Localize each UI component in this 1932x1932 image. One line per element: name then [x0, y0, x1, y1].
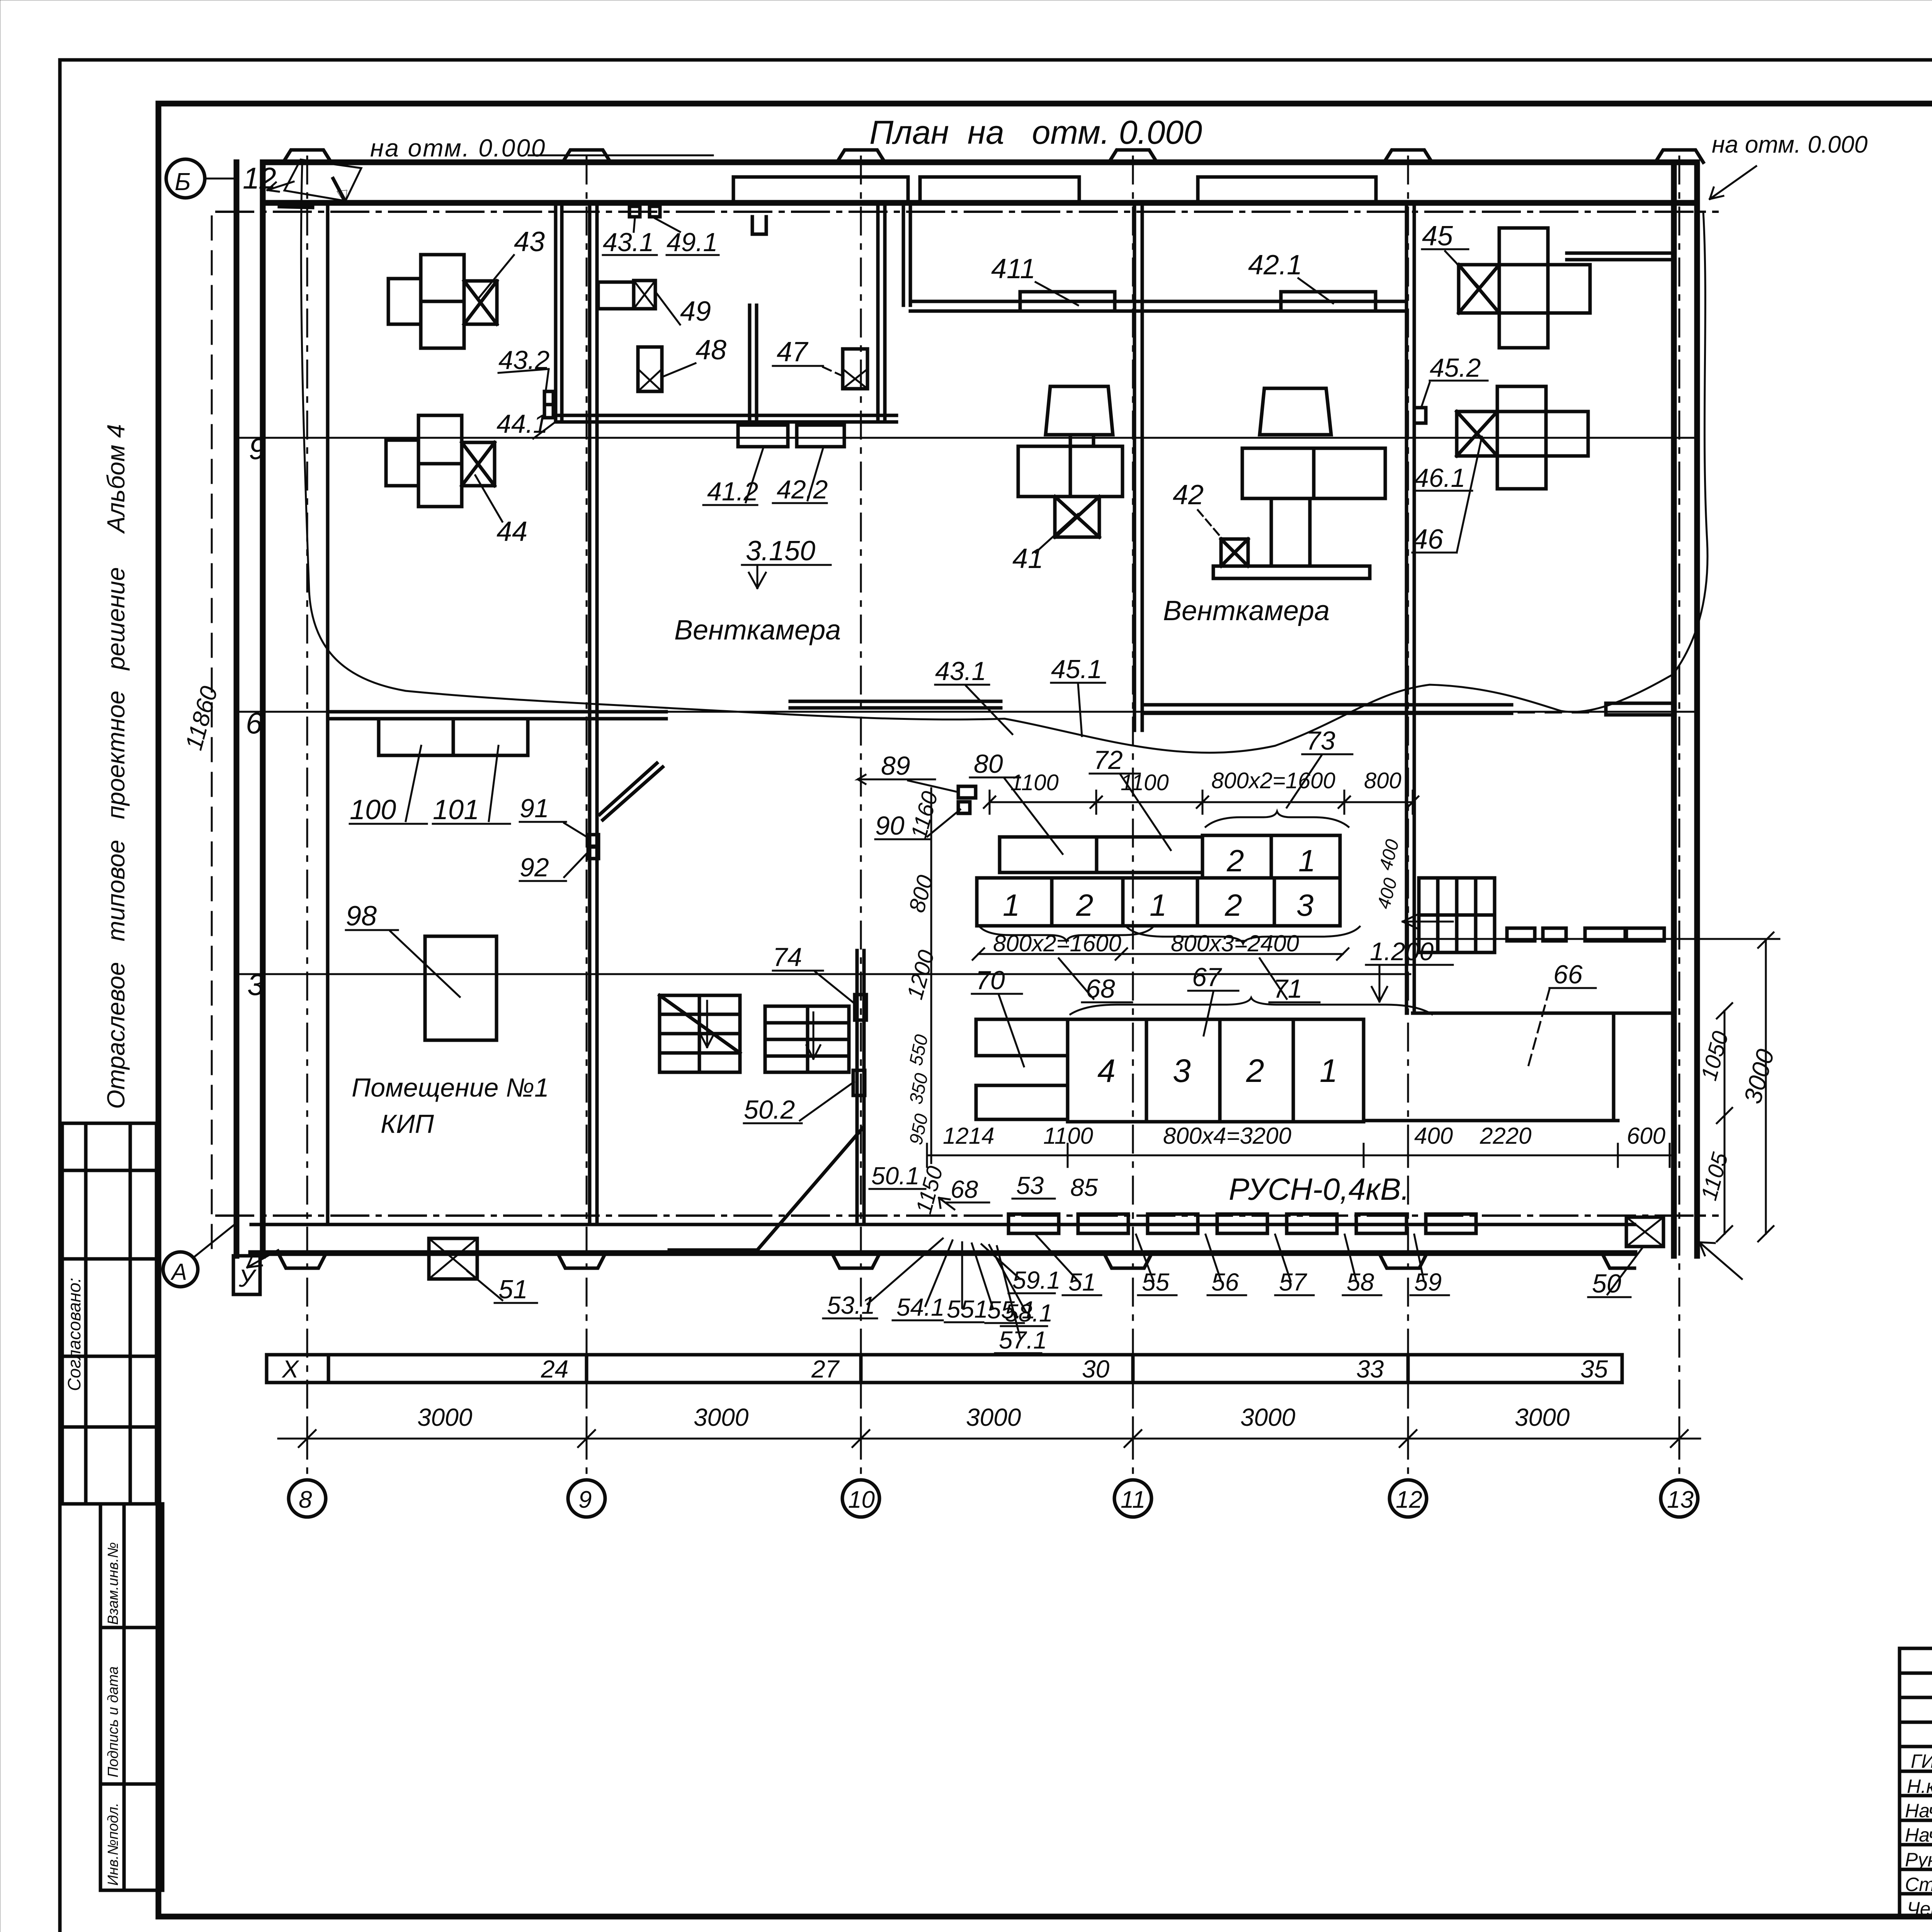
- col-12 wall: [1405, 203, 1408, 1013]
- svg-text:67: 67: [1192, 963, 1222, 992]
- RUSN upper dim line: [990, 801, 1413, 803]
- rail 411-421: [910, 300, 1406, 303]
- svg-text:45.1: 45.1: [1051, 655, 1102, 684]
- machine 43: [388, 255, 497, 348]
- svg-text:42.2: 42.2: [777, 475, 828, 504]
- svg-text:1: 1: [1298, 844, 1316, 878]
- top band window rect 2: [920, 177, 1079, 202]
- svg-text:3: 3: [1173, 1053, 1191, 1089]
- svg-text:48: 48: [696, 335, 726, 366]
- box 100: [379, 719, 453, 755]
- svg-text:3.150: 3.150: [746, 536, 815, 566]
- row6 wall middle segment with pilasters: [790, 700, 1001, 703]
- svg-text:43.1: 43.1: [603, 228, 654, 257]
- svg-text:800х4=3200: 800х4=3200: [1163, 1123, 1291, 1149]
- svg-text:Отраслевое типовое проектн: Отраслевое типовое проектное решение Аль…: [102, 424, 130, 1109]
- svg-text:400: 400: [1414, 1123, 1453, 1149]
- equip 41.2 42.2 below room1: [738, 425, 788, 447]
- col-10 wall lower: [855, 951, 859, 1225]
- svg-text:80: 80: [974, 749, 1003, 779]
- svg-text:Помещение №1: Помещение №1: [352, 1073, 549, 1102]
- transformer 45: [1459, 228, 1590, 348]
- svg-text:41: 41: [1012, 543, 1043, 574]
- svg-text:47: 47: [777, 337, 809, 367]
- svg-text:56: 56: [1211, 1268, 1239, 1296]
- svg-text:50.1: 50.1: [871, 1162, 920, 1190]
- svg-text:4: 4: [1097, 1053, 1116, 1089]
- door bottom diagonal: [757, 1128, 862, 1250]
- svg-text:43.1: 43.1: [935, 656, 986, 686]
- svg-text:800х2=1600: 800х2=1600: [1211, 768, 1335, 793]
- svg-text:92: 92: [520, 853, 549, 882]
- box 45.2: [1414, 408, 1426, 423]
- door leaf top: [603, 767, 663, 820]
- svg-text:А: А: [170, 1259, 187, 1285]
- svg-text:на отм. 0.000: на отм. 0.000: [1712, 131, 1867, 158]
- svg-text:Инв.№подл.: Инв.№подл.: [105, 1803, 121, 1886]
- machine 41: [1018, 386, 1122, 537]
- svg-text:51: 51: [1068, 1268, 1096, 1296]
- lower big table 4 3 2 1: [1068, 1019, 1364, 1122]
- vertical dim 11860: [211, 216, 213, 1260]
- svg-text:59: 59: [1414, 1268, 1442, 1296]
- svg-text:91: 91: [520, 794, 549, 823]
- section arrow 50.1: [939, 1198, 954, 1209]
- svg-text:13: 13: [1667, 1486, 1694, 1513]
- svg-text:РУСН-0,4кВ.: РУСН-0,4кВ.: [1229, 1172, 1410, 1206]
- svg-text:57.1: 57.1: [999, 1326, 1047, 1354]
- right dim chain: [1724, 1011, 1726, 1234]
- transformer 46: [1457, 386, 1588, 489]
- svg-text:46.1: 46.1: [1414, 463, 1465, 493]
- RUSN cells row: [1009, 1214, 1476, 1233]
- svg-text:Нач.отд.: Нач.отд.: [1905, 1800, 1932, 1821]
- svg-text:42: 42: [1173, 480, 1204, 510]
- svg-text:КИП: КИП: [381, 1109, 434, 1139]
- grid circle B: [166, 159, 205, 198]
- boxes 89 90: [958, 786, 976, 798]
- revision wavy curve left-down: [301, 164, 666, 708]
- svg-text:54.1: 54.1: [896, 1293, 945, 1321]
- long bar: [1000, 837, 1202, 872]
- grid circles bottom: [289, 1480, 1698, 1517]
- svg-text:55: 55: [1142, 1268, 1170, 1296]
- box 101: [453, 719, 528, 755]
- svg-text:План на отм. 0.000: План на отм. 0.000: [869, 114, 1202, 151]
- X ruler bar: [267, 1355, 1622, 1383]
- svg-text:53: 53: [1016, 1172, 1044, 1199]
- partition stub in room: [748, 305, 752, 424]
- svg-text:1: 1: [1003, 888, 1020, 922]
- svg-text:42.1: 42.1: [1248, 250, 1302, 281]
- svg-text:45: 45: [1422, 221, 1453, 252]
- svg-text:101: 101: [433, 794, 479, 825]
- svg-text:1: 1: [1320, 1053, 1338, 1089]
- small open square below band: [752, 217, 766, 234]
- machine 44: [386, 415, 495, 507]
- svg-text:2: 2: [1225, 888, 1242, 922]
- svg-text:551: 551: [947, 1295, 988, 1323]
- dim under tables: [980, 927, 1153, 941]
- svg-text:66: 66: [1553, 960, 1583, 989]
- svg-text:1160: 1160: [906, 789, 943, 842]
- svg-text:53.1: 53.1: [827, 1291, 875, 1319]
- svg-text:1050: 1050: [1696, 1029, 1733, 1083]
- revision wavy vertical right: [1673, 212, 1708, 674]
- stairs 1: [660, 995, 740, 1072]
- svg-text:27: 27: [811, 1355, 840, 1383]
- revision wavy curve across: [666, 674, 1673, 753]
- svg-text:68: 68: [951, 1175, 978, 1203]
- bottom labels row: [827, 1266, 1442, 1354]
- small squares 43.1 49.1 on top wall: [629, 206, 640, 217]
- axis B dash-dot: [216, 211, 1718, 213]
- svg-text:1214: 1214: [943, 1123, 994, 1149]
- mid wall vertical of KIP room: [588, 205, 592, 1225]
- svg-text:800х2=1600: 800х2=1600: [993, 930, 1121, 956]
- svg-text:Н.конт.: Н.конт.: [1907, 1776, 1932, 1797]
- column axis lines: [307, 156, 1679, 1480]
- svg-text:50.2: 50.2: [744, 1095, 795, 1124]
- svg-text:72: 72: [1094, 745, 1123, 775]
- svg-text:3000: 3000: [1240, 1403, 1296, 1431]
- svg-text:3000: 3000: [1515, 1403, 1570, 1431]
- svg-text:550: 550: [906, 1033, 932, 1068]
- top wall inner line: [267, 200, 1697, 206]
- svg-text:Подпись и дата: Подпись и дата: [105, 1667, 121, 1777]
- box 74: [855, 995, 866, 1020]
- svg-text:1100: 1100: [1043, 1123, 1093, 1149]
- svg-text:2: 2: [1246, 1053, 1264, 1089]
- svg-text:90: 90: [875, 811, 905, 840]
- row6 wall right block: [1606, 702, 1672, 705]
- stairs top right: [1419, 878, 1495, 952]
- svg-text:35: 35: [1580, 1355, 1608, 1383]
- svg-text:3000: 3000: [694, 1403, 749, 1431]
- svg-text:Б: Б: [175, 168, 191, 196]
- svg-text:33: 33: [1356, 1355, 1384, 1383]
- TITLE BLOCK: [1900, 1648, 1932, 1918]
- svg-text:2: 2: [1226, 844, 1244, 878]
- svg-text:800: 800: [1364, 768, 1401, 793]
- svg-text:11860: 11860: [180, 684, 223, 753]
- svg-text:50: 50: [1592, 1269, 1621, 1298]
- svg-text:100: 100: [350, 794, 396, 825]
- left bars of 70: [976, 1019, 1068, 1056]
- ventkamera1 room right wall: [554, 203, 558, 422]
- bottom main dim line: [278, 1438, 1700, 1440]
- room 66 lines: [1413, 1012, 1674, 1015]
- svg-text:Рук.гр: Рук.гр: [1905, 1849, 1932, 1871]
- svg-text:59.1: 59.1: [1012, 1266, 1061, 1294]
- svg-text:9: 9: [578, 1486, 592, 1513]
- svg-text:на отм. 0.000: на отм. 0.000: [370, 134, 546, 162]
- lower table 1 2 1 2 3: [977, 878, 1340, 926]
- top band window rect 3: [1198, 177, 1376, 202]
- svg-text:Венткамера: Венткамера: [1163, 595, 1330, 626]
- svg-text:57: 57: [1279, 1268, 1308, 1296]
- svg-text:8: 8: [299, 1486, 312, 1513]
- leader fan: [867, 1235, 1424, 1338]
- svg-text:Согласовано:: Согласовано:: [64, 1278, 84, 1391]
- approval table bottom-left: [62, 1123, 156, 1504]
- svg-text:Взам.инв.№: Взам.инв.№: [105, 1542, 121, 1625]
- box 50.2: [853, 1070, 865, 1095]
- right wall col13: [1671, 162, 1677, 1256]
- svg-text:1105: 1105: [1696, 1150, 1733, 1203]
- ventkamera1 room east wall: [876, 203, 880, 422]
- svg-text:74: 74: [773, 942, 802, 972]
- top wall outer line: [267, 160, 1697, 165]
- svg-text:2220: 2220: [1480, 1123, 1531, 1149]
- left wall: [234, 162, 240, 1256]
- svg-text:3000: 3000: [1738, 1046, 1780, 1107]
- row axis lines: [236, 437, 1696, 439]
- svg-text:Черт.: Черт.: [1907, 1898, 1932, 1920]
- svg-text:3000: 3000: [417, 1403, 473, 1431]
- svg-text:400: 400: [1373, 876, 1401, 911]
- svg-text:Нач н/о: Нач н/о: [1905, 1824, 1932, 1846]
- svg-text:73: 73: [1306, 726, 1335, 755]
- svg-text:58: 58: [1347, 1268, 1374, 1296]
- titleblock roles: [1905, 1750, 1932, 1920]
- svg-text:X: X: [281, 1355, 299, 1383]
- svg-text:49.1: 49.1: [667, 228, 718, 257]
- boxes 91 92: [588, 835, 599, 846]
- cell row item 66: [1507, 928, 1664, 941]
- Y box left end of bottom ruler: [233, 1256, 260, 1294]
- svg-text:Венткамера: Венткамера: [674, 615, 841, 646]
- svg-text:6: 6: [246, 706, 263, 740]
- ventkamera1 room bottom wall: [556, 414, 896, 417]
- grid circle A: [163, 1252, 198, 1287]
- top band window rect 1: [733, 177, 908, 202]
- svg-text:24: 24: [541, 1355, 568, 1383]
- row6 wall mid-right segment: [1142, 703, 1512, 707]
- equip 48: [638, 347, 662, 391]
- svg-text:2: 2: [1076, 888, 1094, 922]
- upper table 2|1: [1202, 835, 1340, 878]
- cross box 50: [1626, 1217, 1663, 1247]
- bottom RUSN dim line: [927, 1155, 1673, 1156]
- svg-text:9: 9: [249, 432, 265, 466]
- row6 wall left segment: [330, 710, 666, 714]
- top wall pilasters: [283, 150, 1703, 162]
- svg-text:3000: 3000: [966, 1403, 1021, 1431]
- svg-text:45.2: 45.2: [1430, 353, 1481, 383]
- bottom wall: [251, 1223, 1634, 1226]
- cross box 51: [429, 1238, 477, 1279]
- machine 42 group: [1213, 388, 1385, 578]
- svg-text:950: 950: [906, 1112, 932, 1147]
- na otm arrow bottom-left: [247, 1250, 278, 1267]
- svg-text:3: 3: [1296, 888, 1314, 922]
- svg-text:400: 400: [1375, 837, 1403, 872]
- svg-text:1.200: 1.200: [1370, 937, 1434, 966]
- boxes 43.2 44.1: [544, 391, 553, 405]
- svg-text:411: 411: [991, 253, 1036, 284]
- equip 98: [425, 936, 497, 1040]
- stairs 2: [765, 1006, 849, 1072]
- svg-text:68: 68: [1086, 974, 1115, 1003]
- svg-text:30: 30: [1082, 1355, 1110, 1383]
- right room rail: [1567, 252, 1674, 255]
- svg-text:350: 350: [906, 1071, 932, 1106]
- svg-text:800: 800: [904, 872, 938, 915]
- equip 49: [598, 282, 634, 309]
- equip 47: [843, 349, 867, 389]
- vertical dim chain x=2410: [930, 788, 932, 1163]
- col-11 wall: [1133, 203, 1136, 730]
- svg-text:3: 3: [247, 968, 264, 1002]
- svg-text:43: 43: [514, 226, 545, 257]
- axis A dash-dot: [216, 1214, 1718, 1217]
- svg-text:41.2: 41.2: [707, 477, 758, 506]
- svg-text:800х3=2400: 800х3=2400: [1171, 930, 1299, 956]
- svg-text:ГИП: ГИП: [1911, 1750, 1932, 1772]
- svg-text:89: 89: [881, 751, 910, 781]
- svg-text:12: 12: [1396, 1486, 1422, 1513]
- svg-text:46: 46: [1412, 524, 1444, 555]
- na otm arrow bottom-right: [1699, 1242, 1742, 1279]
- svg-text:98: 98: [346, 901, 377, 932]
- svg-text:1100: 1100: [1010, 770, 1059, 795]
- svg-text:49: 49: [680, 296, 711, 327]
- svg-text:600: 600: [1627, 1123, 1665, 1149]
- svg-text:Ст.инж.: Ст.инж.: [1905, 1874, 1932, 1895]
- svg-text:70: 70: [976, 966, 1005, 995]
- svg-text:1: 1: [1150, 888, 1167, 922]
- margin stamp table bottom-left: [100, 1504, 163, 1890]
- svg-text:11: 11: [1121, 1486, 1145, 1513]
- svg-text:85: 85: [1070, 1173, 1098, 1201]
- svg-text:10: 10: [848, 1486, 875, 1513]
